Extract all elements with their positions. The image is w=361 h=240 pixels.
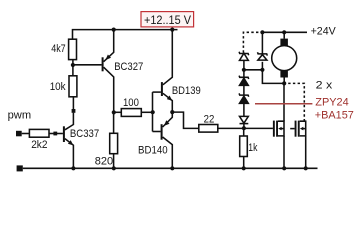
wire gate node to mosfets (244, 127, 273, 129)
junction Q6 source / rail (304, 166, 308, 170)
svg-text:+12..15 V: +12..15 V (144, 15, 191, 27)
junction BD140 collector / ground rail (170, 166, 174, 170)
wire 2k2 to BC337 base (49, 133, 63, 135)
junction 820 / rail (112, 166, 116, 170)
junction BC337 emitter / rail (71, 166, 75, 170)
resistor 1k (240, 128, 258, 168)
junction BC327 collector node (112, 110, 116, 114)
resistor 4k7 (51, 39, 76, 59)
svg-text:BD140: BD140 (138, 144, 168, 156)
wire mosfet Q5 drain (283, 83, 285, 121)
svg-text:+24V: +24V (311, 25, 336, 37)
junction zener column2 / rail (260, 30, 264, 34)
node driver bases (151, 110, 155, 114)
zener D2 column1 (239, 70, 249, 95)
resistor 22 (199, 113, 218, 132)
node A junction (71, 63, 75, 67)
junction motor / rail (282, 30, 286, 34)
node zener mid column1 (242, 68, 246, 72)
zener D5 column2 (258, 32, 268, 70)
junction Q5 source / rail (282, 166, 286, 170)
transistor BC327 (102, 30, 144, 113)
label pointer line red (255, 103, 312, 105)
resistor 820 (95, 112, 118, 168)
wire mosfet Q6 drain dashed (288, 83, 304, 121)
diode D4 column1 (240, 116, 249, 128)
wire +24V rail (262, 31, 307, 33)
terminal ground left (17, 165, 23, 171)
wire mosfet Q5 source (283, 136, 285, 168)
resistor 10k (50, 65, 77, 97)
transistor BD140 (138, 112, 172, 168)
wire base bus (152, 92, 154, 131)
zener D3 column1 (239, 93, 249, 116)
junction 1k / ground rail (242, 166, 246, 170)
node 10k/BC337 collector (72, 109, 76, 113)
wire node A to BC327 base (73, 64, 102, 66)
wire motor bottom to zener column2 (262, 70, 284, 84)
svg-text:ZPY24: ZPY24 (315, 97, 348, 109)
junction BC327 emitter / rail (112, 28, 116, 32)
wire gate Q6 (290, 128, 294, 130)
mosfet Q5 (273, 121, 284, 137)
wire +12V rail (73, 30, 178, 40)
terminal pwm input (8, 109, 32, 136)
transistor BD139 (153, 30, 201, 113)
wire ground rail (23, 167, 318, 169)
wire output to 22 (172, 112, 199, 128)
svg-text:10k: 10k (50, 81, 66, 93)
wire +24V rail dashed (243, 32, 262, 52)
svg-text:pwm: pwm (8, 109, 32, 121)
wire 22 to gate node (218, 127, 244, 129)
svg-text:100: 100 (123, 97, 139, 109)
mosfet Q6 (295, 121, 306, 137)
svg-text:2k2: 2k2 (31, 139, 47, 151)
svg-text:2 x: 2 x (316, 80, 333, 92)
node output emitters (170, 110, 174, 114)
wire 4k7 to node A (72, 60, 74, 65)
resistor 100 (114, 97, 153, 117)
resistor 2k2 (29, 129, 49, 151)
node motor bottom (282, 81, 286, 85)
svg-text:4k7: 4k7 (51, 43, 65, 55)
wire mosfet Q6 source (305, 136, 307, 168)
wire 10k to BC337 collector (72, 97, 74, 111)
node gate (242, 126, 246, 130)
svg-text:BC337: BC337 (70, 128, 99, 140)
svg-text:22: 22 (204, 113, 215, 125)
wire pwm to 2k2 (22, 133, 30, 135)
supply label box +12..15V (141, 12, 194, 28)
motor M (272, 32, 297, 83)
svg-text:820: 820 (95, 155, 113, 167)
svg-text:BD139: BD139 (172, 85, 201, 97)
svg-text:+BA157: +BA157 (315, 110, 354, 122)
zener D1 column1 (239, 52, 249, 70)
node zener mid column2 (260, 68, 264, 72)
node 2k2/BC337 base (53, 132, 57, 136)
transistor BC337 (63, 113, 99, 168)
svg-text:BC327: BC327 (114, 61, 143, 73)
junction BD139 collector / rail (170, 28, 174, 32)
wire zener mid cross (244, 69, 263, 71)
svg-text:1k: 1k (248, 142, 257, 154)
